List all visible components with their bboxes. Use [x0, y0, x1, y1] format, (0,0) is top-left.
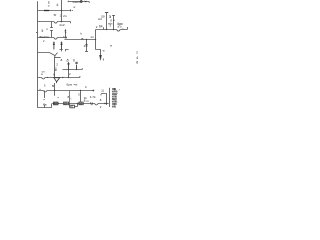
wire corner at x65.5: [66, 50, 69, 52]
wire rail I: [38, 77, 80, 79]
junction node dots: [61, 10, 62, 11]
wire rail H: [62, 69, 82, 71]
svg-text:6s: 6s: [43, 102, 47, 106]
capacitor C6 above rail H: [67, 62, 70, 69]
resistor R1 vertical with leads: [44, 91, 46, 108]
resistor R6 squiggle marks: [65, 30, 67, 32]
wire vertical at x61.5: [61, 0, 63, 22]
node tick at start of top rail: [67, 1, 69, 3]
wire rail E: [38, 37, 68, 39]
svg-text:a: a: [61, 58, 63, 62]
wire rail B: [38, 21, 71, 23]
svg-text:3l: 3l: [109, 15, 112, 19]
wire stub x54.5 below rail J: [54, 91, 56, 96]
wire hop on rail C: [117, 30, 121, 32]
resistor R5 box: [79, 102, 83, 105]
capacitor C9 branch rail B to rail E: [51, 22, 53, 38]
svg-text:BlwNm: BlwNm: [40, 35, 50, 39]
resistor R6 branch to rail E: [65, 29, 67, 37]
wire rail D: [64, 39, 95, 41]
wire corner to diode D1: [96, 50, 101, 61]
wire rail F with switch S1: [38, 53, 58, 56]
node tick on rail C at x123: [122, 28, 124, 29]
switch arrow marks on top rail: [85, 1, 87, 2]
node tick on bus at y32: [36, 32, 38, 34]
svg-text:b: b: [73, 59, 75, 63]
svg-text:10: 10: [79, 101, 82, 105]
svg-text:6μw: 6μw: [67, 82, 73, 86]
figure number rotated right margin: [136, 50, 138, 64]
capacitor C7 above rail H: [75, 62, 77, 69]
svg-text:2: 2: [96, 25, 98, 29]
node dash above rail J: [39, 88, 41, 90]
node rail B end tick: [70, 22, 72, 24]
svg-text:w: w: [73, 6, 75, 9]
node rail A end tick: [71, 9, 74, 11]
resistor R4 bypass branch: [70, 104, 78, 107]
svg-text:22: 22: [64, 101, 67, 105]
svg-text:4.7k: 4.7k: [90, 95, 96, 99]
resistor R3 box: [64, 102, 69, 105]
wire vertical x54.5 rail G to rail I: [54, 58, 56, 78]
wire rail K: [52, 103, 109, 105]
lamp LP1 on top rail: [80, 1, 82, 3]
resistor R4 box: [70, 105, 75, 108]
wire vertical at x113.5: [113, 16, 115, 30]
svg-text:≡: ≡: [136, 50, 138, 54]
terminal block text column: [112, 87, 118, 108]
svg-text:w4: w4: [98, 17, 102, 21]
connector K1 dark segment on rail A: [44, 10, 49, 12]
wire corner at x106.5: [101, 94, 107, 105]
svg-text:8l: 8l: [52, 84, 55, 88]
wire hop on rail I: [42, 78, 46, 80]
node rail C end tick: [126, 27, 128, 30]
wire vertical x69.5: [69, 91, 71, 104]
svg-text:5: 5: [67, 59, 69, 63]
wire stub y49.9: [59, 50, 62, 52]
svg-text:47: 47: [70, 105, 73, 109]
wire S1 to rail G: [54, 56, 57, 58]
wire vertical x109.5: [109, 88, 111, 107]
wire hop on rail E: [54, 38, 58, 40]
svg-text:5: 5: [42, 29, 44, 33]
capacitor C4 hanging: [53, 42, 55, 50]
wire hop on rail B: [54, 22, 58, 24]
wire vertical x80.5: [80, 91, 82, 103]
svg-text:t5: t5: [65, 36, 68, 40]
svg-text:1n: 1n: [90, 35, 94, 39]
svg-text:a.u: a.u: [118, 25, 122, 29]
node dash at x66 y61: [66, 60, 67, 62]
ground symbol triangle: [54, 78, 60, 83]
capacitor C9 plates: [50, 28, 53, 31]
node tick up on rail E: [63, 36, 65, 37]
wire vertical x68.5 through rail I: [68, 70, 70, 78]
svg-text:88: 88: [54, 101, 58, 105]
marks right of x54.5: [55, 68, 57, 71]
svg-text:mwm: mwm: [73, 0, 81, 4]
svg-text:64: 64: [99, 24, 103, 28]
wire hop down on rail K: [95, 104, 98, 106]
svg-text:2n2: 2n2: [59, 23, 64, 27]
wire vertical at x95.5: [95, 30, 97, 50]
wire rail C: [96, 29, 128, 31]
diode D1 triangle: [100, 56, 102, 58]
wire hop bump on rail D: [81, 38, 83, 39]
capacitor C5 hanging: [61, 42, 63, 50]
svg-text:6: 6: [136, 60, 138, 64]
wire branch to capacitor C3: [86, 40, 88, 52]
wire hop on rail J: [43, 91, 47, 93]
wire rail J: [38, 90, 94, 92]
capacitor C3 plates: [85, 45, 87, 47]
svg-text:4.: 4.: [56, 3, 59, 7]
antenna stem: [106, 13, 108, 30]
diode D1 bar: [100, 57, 102, 59]
node tick on rail C at x103.5: [103, 27, 105, 29]
node top rail end tick: [88, 2, 90, 3]
svg-text:WB: WB: [112, 105, 116, 109]
terminal bar under C3: [85, 51, 88, 53]
svg-text:2n: 2n: [63, 14, 67, 18]
svg-text:n: n: [46, 27, 48, 31]
node small dot right of terminal block: [118, 88, 121, 91]
node rail I end tick: [79, 76, 81, 78]
wire main left bus: [38, 1, 52, 107]
capacitor C8 plate marks: [90, 102, 93, 105]
resistor R2 box dark: [54, 102, 58, 105]
node rail H end tick: [81, 68, 83, 69]
svg-text:=: =: [43, 98, 45, 102]
antenna T bar: [105, 12, 108, 14]
capacitor C2 top bar: [112, 15, 115, 17]
wire rail A top: [38, 10, 71, 12]
wire top rail: [68, 1, 89, 3]
wire vertical x54.5 lower: [54, 83, 56, 91]
wire rail G: [55, 57, 61, 59]
svg-text:5f: 5f: [54, 13, 57, 17]
